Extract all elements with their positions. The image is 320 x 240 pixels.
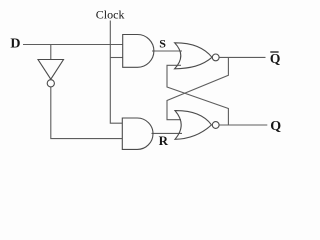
svg-text:S: S [159, 37, 166, 51]
svg-text:Clock: Clock [96, 8, 125, 22]
svg-text:D: D [10, 37, 20, 52]
svg-text:R: R [159, 133, 169, 148]
svg-text:Q: Q [270, 51, 281, 66]
svg-text:Q: Q [270, 119, 281, 134]
